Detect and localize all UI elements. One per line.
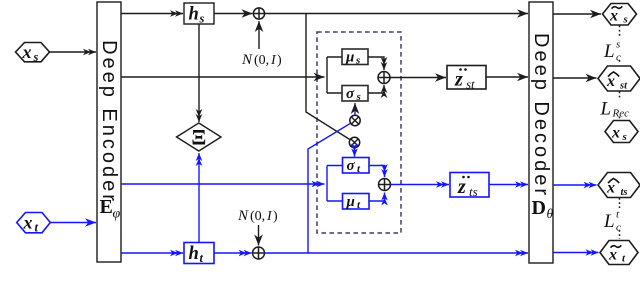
dashed latent box: [317, 32, 401, 233]
label L_c^s: [603, 39, 621, 64]
node x~_s (reconstructed source): [603, 4, 637, 26]
svg-text:x: x: [609, 8, 618, 25]
deep encoder box E_phi: [97, 2, 121, 262]
svg-text:s: s: [616, 39, 620, 51]
svg-text:θ: θ: [547, 206, 554, 221]
svg-text:x: x: [22, 42, 32, 62]
box h_s: [184, 3, 214, 26]
wire h_s to noise adder: [214, 13, 253, 15]
svg-text:s: s: [33, 50, 39, 64]
box z_ts: [450, 173, 489, 200]
wire mu_s to combiner: [368, 57, 384, 70]
svg-text:s: s: [623, 14, 628, 26]
wire decoder to x~_s: [553, 13, 601, 15]
svg-text:E: E: [100, 196, 113, 218]
svg-text:st: st: [466, 77, 475, 92]
svg-text:s: s: [622, 131, 627, 143]
wire decoder to x^_st: [553, 77, 597, 79]
svg-text:x: x: [606, 180, 615, 197]
svg-text:σ: σ: [346, 86, 355, 102]
svg-text:ts: ts: [469, 184, 478, 199]
svg-text:): ): [273, 209, 278, 224]
wire encoder mid to mu/sigma fork (s): [121, 76, 325, 78]
svg-text:L: L: [603, 211, 615, 232]
fork bracket t: [327, 166, 343, 202]
label L_c^t: [603, 209, 621, 234]
wire encoder mid to mu/sigma fork (t): [121, 183, 325, 185]
svg-text:(0,: (0,: [250, 209, 265, 224]
svg-text:s: s: [199, 12, 205, 26]
box mu_t: [343, 194, 370, 212]
svg-text:x: x: [606, 73, 615, 90]
svg-text:Deep Decoder: Deep Decoder: [530, 33, 552, 198]
node x_s (source input hexagon): [16, 42, 50, 64]
svg-text:(0,: (0,: [254, 53, 269, 68]
wire mu_t to combiner: [369, 193, 385, 202]
noise adder (+) bottom: [253, 247, 265, 259]
node x^_st (cross reconstruction s): [598, 66, 640, 92]
node x_s reference: [605, 121, 638, 144]
wire gate to sigma_s: [354, 103, 356, 115]
wire noise to adder top: [258, 21, 260, 49]
box z_st: [447, 66, 486, 92]
svg-text:x: x: [23, 213, 33, 233]
wire gate to sigma_t: [354, 148, 356, 157]
comparator diamond Xi: [177, 123, 222, 151]
wire combiner to z_st: [390, 77, 446, 79]
fork bracket s: [327, 57, 342, 93]
wire noise to adder bottom: [258, 225, 260, 246]
wire encoder to h_t: [121, 252, 183, 254]
svg-text:t: t: [35, 221, 39, 235]
svg-text:x: x: [611, 125, 620, 142]
svg-text:z: z: [457, 176, 466, 198]
svg-text:μ: μ: [346, 194, 355, 210]
label N(0,I) top: [241, 52, 282, 68]
svg-text:s: s: [356, 91, 361, 103]
wire encoder to h_s: [121, 13, 183, 15]
box sigma_t: [343, 158, 370, 176]
svg-text:μ: μ: [345, 50, 354, 66]
wire x_s to encoder: [50, 51, 97, 53]
node x~_t (reconstructed target): [600, 241, 638, 265]
svg-text:Deep Encoder: Deep Encoder: [98, 40, 120, 204]
dotted link L_c^s to x^_st: [619, 60, 621, 64]
svg-text:N: N: [237, 208, 249, 224]
wire z_ts to decoder: [489, 184, 528, 186]
svg-text:): ): [277, 53, 282, 68]
svg-text:σ: σ: [347, 158, 356, 174]
wire branch down from top rail to gate: [306, 14, 350, 140]
gate (x) upper: t modulates sigma_s: [350, 115, 360, 125]
wire adder to decoder (top rail): [265, 13, 528, 15]
svg-text:D: D: [532, 197, 546, 219]
gate (x) lower: s modulates sigma_t: [349, 137, 359, 147]
svg-text:z: z: [454, 69, 463, 91]
wire decoder to x^_ts: [553, 184, 597, 186]
node x^_ts (cross reconstruction t): [598, 173, 640, 199]
wire branch up from bottom rail to gate: [308, 124, 350, 253]
svg-text:h: h: [189, 244, 199, 264]
wire sigma_t to combiner: [369, 166, 385, 178]
wire decoder to x~_t: [553, 252, 599, 254]
svg-text:L: L: [603, 41, 615, 62]
svg-text:s: s: [355, 55, 360, 67]
svg-text:Rec: Rec: [612, 108, 630, 120]
noise adder (+) top: [253, 8, 264, 19]
dotted link x^_ts to L_c^t: [619, 198, 621, 208]
box mu_s: [342, 49, 368, 67]
svg-text:st: st: [619, 81, 628, 92]
svg-text:x: x: [608, 247, 617, 264]
svg-text:t: t: [200, 251, 204, 265]
svg-text:N: N: [241, 52, 253, 68]
svg-text:L: L: [600, 99, 612, 120]
box sigma_s: [342, 86, 368, 104]
svg-text:φ: φ: [113, 207, 121, 222]
dotted link x~_s to L_c^s: [619, 26, 621, 39]
svg-text:h: h: [189, 5, 199, 25]
node x_t (target input hexagon): [17, 213, 51, 235]
dotted link L_Rec to x_s ref: [619, 117, 621, 120]
wire sigma_s to combiner: [368, 85, 384, 93]
svg-text:Ξ: Ξ: [191, 124, 206, 149]
wire h_t up to comparator: [198, 153, 200, 243]
deep decoder box D_theta: [529, 2, 554, 263]
wire adder to decoder (bottom rail): [265, 252, 529, 254]
combiner (+) t: [379, 179, 391, 191]
svg-text:ts: ts: [621, 187, 628, 198]
dotted link L_c^t to x~_t: [619, 230, 621, 239]
wire z_st to decoder: [486, 76, 528, 78]
wire h_t to noise adder bottom: [214, 252, 252, 254]
box h_t: [184, 243, 214, 266]
wire x_t to encoder: [50, 222, 96, 224]
label L_Rec: [600, 99, 630, 120]
dotted link x^_st to L_Rec: [619, 92, 621, 101]
combiner (+) s: [378, 72, 390, 84]
wire h_s down to comparator: [198, 24, 200, 122]
label N(0,I) bottom: [237, 208, 278, 224]
wire combiner to z_ts: [391, 184, 450, 186]
